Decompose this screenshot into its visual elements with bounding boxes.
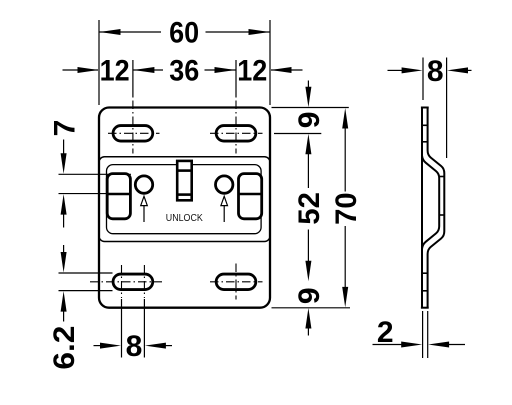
- side front face line: [421, 108, 423, 308]
- 7 arrows: [61, 153, 67, 174]
- dim 8 bottom tails: [94, 345, 102, 347]
- slot top-right: [216, 126, 256, 142]
- svg-text:6.2: 6.2: [48, 326, 81, 370]
- dim 6.2 lines: [63, 245, 65, 253]
- dim 70 line: [344, 126, 346, 192]
- left latch block: [107, 174, 130, 219]
- svg-text:60: 60: [169, 17, 199, 50]
- side view profile: [421, 108, 444, 308]
- right latch block: [239, 174, 262, 219]
- dim 60 line: [99, 31, 161, 33]
- svg-text:2: 2: [377, 316, 394, 349]
- centerline top-right slot vertical: [235, 101, 237, 154]
- centerline bottom-right slot vertical: [235, 264, 237, 300]
- arrowheads: [61, 29, 468, 349]
- svg-text:9: 9: [293, 112, 326, 129]
- side dim 2 tails: [373, 344, 403, 346]
- svg-text:70: 70: [330, 192, 363, 225]
- slot top-left: [113, 126, 153, 142]
- svg-text:8: 8: [126, 330, 143, 363]
- centerline top-right slot horizontal: [210, 132, 263, 134]
- svg-text:7: 7: [48, 120, 81, 137]
- extension line 7/latch divider: [59, 193, 132, 195]
- centerline top-left slot horizontal: [108, 132, 160, 134]
- side view dim 8 ext lines: [422, 58, 424, 101]
- dimension texts: [48, 17, 443, 370]
- extension line 7/latch top: [59, 173, 132, 175]
- centerline bottom-right slot horizontal: [210, 281, 263, 283]
- dim 12 right tail: [271, 69, 303, 71]
- ext lines 6.2: [59, 272, 113, 274]
- svg-text:52: 52: [293, 192, 326, 225]
- centre tab: [177, 161, 192, 200]
- left release button circle: [135, 176, 152, 193]
- 12 left arrow: [78, 67, 99, 73]
- ext line slot-center right: [235, 60, 237, 98]
- side slot edge ticks: [422, 125, 444, 290]
- 8 bottom arrows: [100, 343, 121, 349]
- dim 7 line: [63, 140, 65, 155]
- svg-text:12: 12: [100, 55, 130, 88]
- 9 top arrows: [305, 87, 311, 108]
- left unlock arrow: [141, 196, 148, 222]
- side bottom cap: [421, 307, 429, 309]
- dim column 9/52/9: [307, 81, 309, 90]
- dim 36 line: [133, 69, 163, 71]
- ext line plate right top: [269, 20, 271, 105]
- right side ext lines: [272, 107, 349, 109]
- centerline bottom-left slot horizontal: [90, 281, 162, 283]
- slot bottom-right: [216, 274, 256, 290]
- svg-text:9: 9: [293, 287, 326, 304]
- side 2 arrows: [401, 342, 422, 348]
- dimension graphics: [59, 20, 472, 358]
- svg-text:8: 8: [427, 55, 444, 88]
- raised band outer contour: [99, 157, 270, 242]
- svg-text:36: 36: [169, 55, 199, 88]
- side jog front line: [422, 156, 439, 249]
- 70 arrows: [342, 108, 348, 129]
- centerline bottom-left slot arc centers: [121, 265, 123, 298]
- 60 arrows: [100, 29, 121, 35]
- svg-text:12: 12: [237, 55, 267, 88]
- right unlock arrow: [221, 196, 228, 222]
- side dim 8 tails: [388, 69, 404, 71]
- centerlines (dash-dot): [90, 101, 263, 300]
- 36 arrows: [133, 67, 154, 73]
- ext line slot-center left: [132, 60, 134, 98]
- side dim 2 ext lines: [422, 311, 424, 358]
- slot bottom-left: [113, 274, 153, 290]
- 12 right arrow: [271, 67, 292, 73]
- right release button circle: [216, 176, 233, 193]
- svg-text:UNLOCK: UNLOCK: [166, 213, 203, 224]
- dim 12 left tail: [63, 69, 99, 71]
- centerline top-left slot vertical: [132, 101, 134, 154]
- ext line plate left top: [98, 20, 100, 105]
- inner recess rounded rect: [107, 165, 262, 234]
- 9 bottom arrow: [305, 308, 311, 329]
- plate outline front view: [99, 108, 270, 308]
- side back contour with jog: [428, 108, 445, 308]
- 6.2 arrows: [61, 252, 67, 273]
- side 8 arrows: [402, 67, 423, 73]
- ext lines 8 bottom: [121, 299, 123, 358]
- side top cap: [421, 107, 429, 109]
- 52 bottom arrow: [305, 261, 311, 282]
